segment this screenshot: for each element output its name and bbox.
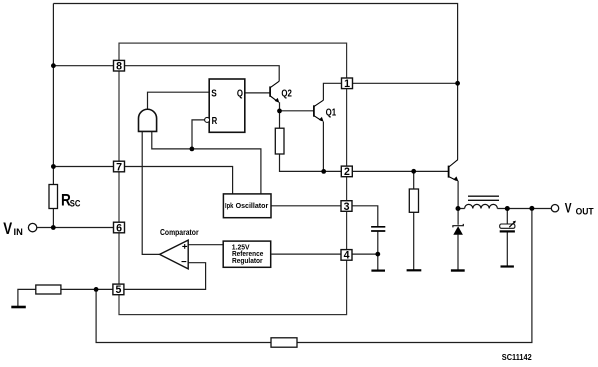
svg-text:SC: SC (70, 199, 81, 209)
svg-text:7: 7 (116, 161, 122, 173)
svg-text:R: R (212, 116, 218, 127)
svg-text:S: S (211, 89, 217, 100)
svg-text:V: V (565, 201, 572, 216)
svg-text:OUT: OUT (576, 206, 594, 216)
svg-text:8: 8 (116, 61, 122, 73)
svg-text:2: 2 (344, 166, 350, 178)
svg-text:Comparator: Comparator (160, 228, 199, 237)
svg-text:6: 6 (116, 222, 122, 234)
svg-text:Q: Q (237, 89, 243, 100)
svg-text:4: 4 (344, 250, 350, 262)
svg-text:Q1: Q1 (326, 108, 337, 119)
svg-text:Ipk: Ipk (225, 201, 233, 210)
svg-text:Oscillator: Oscillator (236, 201, 269, 210)
svg-text:1: 1 (344, 78, 350, 90)
svg-text:IN: IN (14, 227, 23, 237)
svg-text:5: 5 (116, 284, 122, 296)
svg-text:Regulator: Regulator (232, 256, 263, 265)
svg-text:V: V (3, 220, 12, 238)
svg-text:SC11142: SC11142 (502, 352, 532, 362)
svg-text:3: 3 (344, 201, 350, 213)
svg-text:Q2: Q2 (281, 88, 292, 99)
